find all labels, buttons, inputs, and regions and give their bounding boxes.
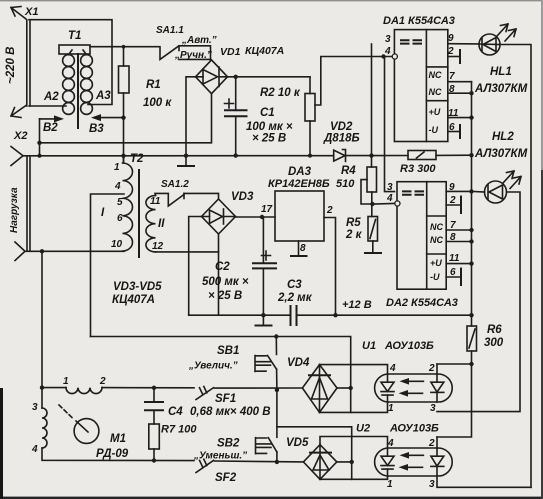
svg-text:С1: С1 — [260, 107, 275, 119]
svg-text:1: 1 — [114, 162, 120, 173]
svg-text:11: 11 — [449, 253, 460, 264]
svg-text:11: 11 — [448, 108, 459, 119]
svg-text:С4: С4 — [168, 406, 183, 418]
svg-text:Д818Б: Д818Б — [323, 133, 360, 145]
svg-text:2: 2 — [428, 363, 435, 374]
svg-text:2: 2 — [428, 438, 435, 449]
svg-text:2: 2 — [99, 376, 106, 387]
svg-text:КЦ407А: КЦ407А — [112, 294, 155, 306]
svg-text:× 25 В: × 25 В — [252, 133, 286, 145]
svg-text:АОУ103Б: АОУ103Б — [384, 340, 434, 352]
svg-text:2: 2 — [449, 195, 456, 206]
svg-text:NC: NC — [430, 222, 443, 232]
svg-text:8: 8 — [449, 84, 455, 95]
svg-text:А2: А2 — [43, 91, 59, 103]
svg-text:9: 9 — [448, 33, 454, 44]
svg-text:8: 8 — [300, 243, 306, 254]
svg-text:9: 9 — [449, 182, 455, 193]
svg-text:100 к: 100 к — [143, 97, 172, 109]
svg-text:3: 3 — [387, 182, 393, 193]
svg-text:„Увелич.”: „Увелич.” — [188, 361, 238, 372]
svg-text:„Ручн.”: „Ручн.” — [174, 50, 212, 61]
svg-text:VD2: VD2 — [330, 121, 353, 133]
svg-text:300: 300 — [484, 337, 504, 349]
svg-text:R1: R1 — [146, 79, 161, 91]
svg-text:3: 3 — [32, 402, 38, 413]
svg-text:+U: +U — [430, 258, 442, 268]
svg-text:R7 100: R7 100 — [161, 424, 197, 436]
svg-text:NC: NC — [429, 70, 442, 80]
svg-text:× 25 В: × 25 В — [208, 290, 242, 302]
svg-text:4: 4 — [389, 363, 396, 374]
svg-text:4: 4 — [114, 181, 121, 192]
svg-text:РД-09: РД-09 — [96, 448, 129, 460]
svg-text:Т1: Т1 — [68, 30, 81, 42]
svg-text:17: 17 — [261, 204, 273, 215]
svg-text:100 мк ×: 100 мк × — [246, 121, 293, 133]
svg-text:4: 4 — [31, 444, 38, 455]
svg-text:X1: X1 — [24, 6, 38, 18]
svg-text:DA3: DA3 — [288, 166, 312, 178]
svg-text:+U: +U — [429, 107, 441, 117]
svg-text:6: 6 — [117, 213, 123, 224]
svg-text:В2: В2 — [43, 122, 58, 134]
svg-text:10: 10 — [111, 239, 123, 250]
svg-text:6: 6 — [450, 267, 456, 278]
svg-text:Т2: Т2 — [130, 153, 144, 165]
svg-text:DA1 К554СА3: DA1 К554СА3 — [383, 15, 455, 27]
svg-text:R5: R5 — [346, 217, 361, 229]
svg-text:HL1: HL1 — [490, 66, 512, 78]
svg-text:В3: В3 — [89, 123, 104, 135]
svg-text:R3 300: R3 300 — [400, 163, 436, 175]
svg-text:1: 1 — [388, 403, 394, 414]
svg-text:DA2 К554СА3: DA2 К554СА3 — [386, 297, 458, 309]
svg-text:КР142ЕН8Б: КР142ЕН8Б — [268, 178, 330, 190]
svg-text:2: 2 — [447, 46, 454, 57]
svg-text:7: 7 — [449, 71, 455, 82]
svg-text:VD5: VD5 — [286, 437, 309, 449]
svg-text:500 мк ×: 500 мк × — [202, 276, 249, 288]
svg-text:11: 11 — [150, 196, 161, 207]
svg-text:КЦ407А: КЦ407А — [245, 45, 284, 57]
svg-text:1: 1 — [63, 376, 69, 387]
svg-text:-U: -U — [429, 125, 439, 135]
svg-text:6: 6 — [449, 122, 455, 133]
svg-text:С3: С3 — [287, 279, 302, 291]
svg-text:3: 3 — [430, 403, 436, 414]
svg-text:1: 1 — [387, 479, 393, 490]
svg-text:SA1.1: SA1.1 — [156, 25, 184, 36]
svg-text:VD3: VD3 — [231, 191, 254, 203]
svg-text:+12 В: +12 В — [342, 299, 372, 311]
svg-text:А3: А3 — [95, 90, 111, 102]
svg-text:7: 7 — [450, 220, 456, 231]
svg-text:3: 3 — [429, 479, 435, 490]
svg-text:„Уменьш.”: „Уменьш.” — [193, 451, 247, 462]
svg-text:8: 8 — [450, 232, 456, 243]
svg-text:U2: U2 — [356, 423, 370, 435]
svg-text:SB1: SB1 — [217, 345, 239, 357]
svg-text:SA1.2: SA1.2 — [161, 179, 189, 190]
svg-text:X2: X2 — [13, 130, 27, 142]
svg-text:5: 5 — [117, 197, 123, 208]
svg-text:-U: -U — [430, 272, 440, 282]
svg-text:VD1: VD1 — [220, 46, 241, 58]
svg-text:3: 3 — [385, 34, 391, 45]
svg-text:4: 4 — [387, 438, 394, 449]
svg-text:II: II — [158, 218, 165, 230]
svg-text:АЛ307КМ: АЛ307КМ — [474, 148, 528, 160]
svg-text:SF1: SF1 — [215, 393, 236, 405]
svg-text:R6: R6 — [487, 324, 502, 336]
svg-text:Нагрузка: Нагрузка — [9, 187, 20, 233]
svg-text:~220 В: ~220 В — [5, 47, 17, 84]
svg-text:R2 10 к: R2 10 к — [260, 87, 301, 99]
svg-text:0,68 мк× 400 В: 0,68 мк× 400 В — [190, 406, 271, 418]
svg-text:2: 2 — [326, 205, 333, 216]
svg-text:4: 4 — [386, 193, 393, 204]
svg-text:12: 12 — [152, 241, 164, 252]
svg-text:SF2: SF2 — [215, 472, 237, 484]
svg-text:М1: М1 — [110, 433, 126, 445]
svg-text:R4: R4 — [341, 165, 356, 177]
svg-text:VD4: VD4 — [287, 357, 310, 369]
svg-text:SB2: SB2 — [217, 438, 240, 450]
svg-text:С2: С2 — [215, 261, 230, 273]
svg-text:510: 510 — [336, 178, 355, 190]
svg-text:2 к: 2 к — [345, 229, 363, 241]
svg-text:VD3-VD5: VD3-VD5 — [113, 281, 162, 293]
svg-text:U1: U1 — [362, 340, 376, 352]
svg-text:2,2 мк: 2,2 мк — [277, 292, 313, 304]
svg-text:„Авт.”: „Авт.” — [181, 35, 217, 46]
svg-text:NC: NC — [429, 87, 442, 97]
svg-text:NC: NC — [430, 235, 443, 245]
svg-text:АОУ103Б: АОУ103Б — [389, 423, 439, 435]
svg-text:АЛ307КМ: АЛ307КМ — [474, 83, 528, 95]
svg-text:HL2: HL2 — [492, 131, 514, 143]
